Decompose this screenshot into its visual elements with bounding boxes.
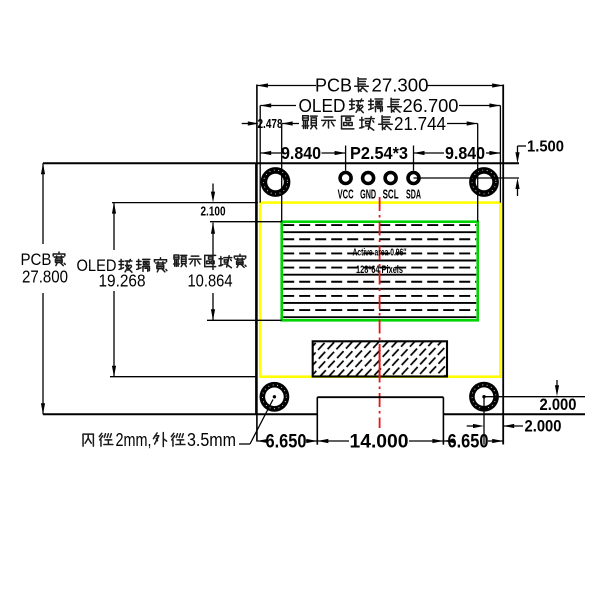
display length left arrow: [282, 121, 293, 125]
svg-text:27.300: 27.300: [372, 76, 429, 96]
display pixel row (solid): [283, 274, 476, 276]
label display length: xian: [302, 116, 317, 129]
2.000 h-dim right-pointing arrow: [473, 424, 484, 428]
svg-text:SCL: SCL: [383, 187, 399, 202]
mounting hole 2: [469, 167, 499, 197]
svg-text:PCB: PCB: [315, 76, 352, 96]
arrow PCB length left: [257, 83, 268, 87]
hole center vertical extension: [483, 397, 485, 445]
9.840 left dim line seg: [260, 152, 281, 154]
dim line PCB length right segment: [427, 85, 503, 87]
2.100/10.864 up arrow: [211, 223, 215, 234]
OLED glass outline (yellow): [260, 203, 500, 377]
svg-text:2.000: 2.000: [525, 418, 562, 436]
label display length: qu: [342, 116, 354, 129]
display width dim line upper: [212, 223, 214, 270]
2.100 down arrow: [211, 192, 215, 203]
6.650 R dim seg2: [488, 440, 503, 442]
leader diagonal to hole: [250, 400, 273, 445]
2.000 h-dim left-pointing arrow: [503, 424, 514, 428]
label display width: shi: [189, 256, 201, 266]
glass bottom extension line left: [110, 376, 257, 378]
14.000 dim seg: [317, 440, 349, 442]
FPC hatched rectangle: [313, 341, 447, 376]
hole center extension right: [484, 396, 585, 398]
label display width: yu: [219, 256, 232, 268]
PCB left edge + extensions: [256, 85, 258, 442]
svg-text:2mm,: 2mm,: [116, 430, 152, 450]
display length right arrow: [467, 121, 478, 125]
display pixel row (dashed): [283, 238, 476, 240]
6.650 R dim seg: [443, 440, 448, 442]
label glass width: li: [137, 259, 150, 271]
label glass width: kuan: [155, 258, 167, 272]
glass width up arrow: [112, 203, 116, 214]
arrow OLED glass length right: [489, 103, 500, 107]
display pixel row (dashed): [283, 224, 476, 226]
label PCB length: chang: [355, 78, 369, 92]
PCB right edge + extensions: [502, 85, 504, 445]
svg-text:OLED: OLED: [299, 95, 346, 116]
PCB bottom edge right + extension: [443, 413, 585, 415]
9.840 right dim seg2: [486, 152, 500, 154]
svg-text:P2.54*3: P2.54*3: [350, 143, 408, 163]
2.100 upper arrow line: [212, 184, 214, 197]
6.650 L dim seg2: [306, 440, 317, 442]
label glass length: bo: [350, 99, 364, 113]
9.840 left right-arrow: [335, 151, 346, 155]
label wai: [153, 432, 166, 446]
label display length: chang: [379, 116, 393, 130]
9.840 right right-arrow: [489, 151, 500, 155]
label display width: xian: [174, 255, 187, 267]
arrow OLED glass length left: [260, 103, 271, 107]
display active area outline (green): [282, 222, 478, 321]
display right extension line: [477, 124, 479, 222]
dim line PCB length left segment: [257, 85, 316, 87]
svg-text:2.478: 2.478: [258, 117, 283, 131]
dim line OLED glass length left segment: [260, 105, 296, 107]
SDA pin extension line up: [413, 146, 415, 171]
svg-text:9.840: 9.840: [281, 143, 321, 163]
1.500 leader tick: [518, 145, 527, 147]
PCB top edge + extension lines: [43, 162, 519, 164]
6.650 L right arrow: [306, 439, 317, 443]
2.000 v-dim down arrow: [555, 385, 559, 396]
svg-text:14.000: 14.000: [350, 431, 409, 453]
display pixel row (dashed): [283, 252, 476, 254]
display bottom extension left: [207, 319, 282, 321]
PCB width up arrow: [41, 163, 45, 174]
glass width dim line lower: [113, 291, 115, 377]
pin GND: [361, 171, 376, 186]
9.840 left arrow: [260, 151, 271, 155]
svg-text:GND: GND: [360, 187, 376, 202]
red centerline over hatch: [379, 347, 381, 378]
display pixel row (solid): [283, 288, 476, 290]
svg-text:2.000: 2.000: [540, 396, 577, 414]
VCC pin extension line up: [345, 146, 347, 171]
PCB bottom edge left + extension: [43, 413, 317, 415]
svg-text:128*64 Pixels: 128*64 Pixels: [356, 264, 403, 276]
14.000 right arrow: [432, 439, 443, 443]
label nei: [83, 434, 93, 446]
dim line display length right segment: [447, 123, 478, 125]
9.840 left dim line seg2: [322, 152, 346, 154]
dim line OLED glass length right segment: [459, 105, 500, 107]
glass width down arrow: [112, 366, 116, 377]
mounting hole 3: [260, 382, 290, 412]
9.840 right left-arrow: [414, 151, 425, 155]
arrow PCB length right: [492, 83, 503, 87]
svg-text:SDA: SDA: [406, 187, 421, 202]
svg-text:6.650: 6.650: [448, 431, 489, 453]
tab top edge: [317, 396, 443, 398]
svg-text:6.650: 6.650: [266, 431, 307, 453]
svg-text:27.800: 27.800: [22, 267, 68, 287]
6.650 L dim seg: [257, 440, 266, 442]
2.478 left arrow tail: [242, 123, 257, 125]
svg-text:3.5mm: 3.5mm: [187, 430, 236, 450]
display pixel row (dashed): [283, 309, 476, 311]
mounting hole 4: [469, 382, 499, 412]
glass width dim line upper: [113, 203, 115, 250]
9.840 right dim seg: [414, 152, 445, 154]
OLED glass left extension: [259, 106, 261, 203]
OLED glass right extension: [499, 106, 501, 203]
label jing: [99, 433, 113, 446]
display pixel row (dashed): [283, 281, 476, 283]
svg-text:10.864: 10.864: [188, 271, 233, 291]
2.000 v-dim upper arrow line: [556, 380, 558, 391]
svg-text:21.744: 21.744: [394, 113, 446, 134]
svg-text:9.840: 9.840: [445, 143, 485, 163]
PCB left edge thickening: [255, 163, 257, 414]
display pixel row (solid): [283, 316, 476, 318]
display width down arrow: [211, 309, 215, 320]
red vertical centerline: [379, 197, 381, 428]
14.000 left arrow: [317, 439, 328, 443]
label display length: shi: [322, 117, 336, 128]
display pixel row (solid): [283, 302, 476, 304]
label display length: yu: [360, 117, 374, 131]
display left extension line: [281, 124, 283, 222]
label display width: kuan: [234, 254, 246, 267]
14.000 dim seg2: [409, 440, 443, 442]
PCB width dim line lower: [42, 293, 44, 414]
display pixel row (dashed): [283, 267, 476, 269]
1.500 down arrow: [515, 152, 519, 163]
1.500 up arrow: [515, 178, 519, 189]
2.000 h-dim right tail: [503, 425, 523, 427]
pin SDA: [406, 171, 421, 186]
svg-text:Active area 0.96″: Active area 0.96″: [353, 248, 407, 259]
display top extension left: [210, 221, 282, 223]
tab right edge + extension: [442, 397, 444, 445]
label PCB width: kuan: [53, 252, 65, 266]
SDA pin row extension to right: [414, 177, 520, 179]
glass top extension line left: [112, 202, 258, 204]
1.500 lower arrow line: [517, 183, 519, 196]
svg-text:VCC: VCC: [338, 187, 354, 202]
6.650 R right arrow: [492, 439, 503, 443]
label display width: qu: [205, 255, 216, 266]
display pixel row (dashed): [283, 295, 476, 297]
display pixel row (solid): [283, 245, 476, 247]
1.500 upper arrow line: [517, 146, 519, 157]
mounting hole 1: [261, 167, 291, 197]
2.000 h-dim left tail: [467, 425, 473, 427]
label glass length: li: [369, 99, 383, 112]
display pixel row (solid): [283, 260, 476, 262]
svg-text:1.500: 1.500: [527, 139, 564, 156]
label glass width: bo: [119, 259, 132, 272]
pin SCL: [383, 171, 398, 186]
PCB width down arrow: [41, 403, 45, 414]
leader horizontal: [239, 443, 250, 445]
tab left edge + extension: [316, 397, 318, 445]
2.478 left arrow (points right): [248, 121, 259, 125]
dim line display length left segment: [282, 123, 299, 125]
6.650 left arrow: [257, 439, 268, 443]
pin VCC: [338, 171, 353, 186]
PCB width dim line upper: [42, 163, 44, 244]
svg-text:19.268: 19.268: [99, 271, 146, 291]
display width dim line lower: [212, 293, 214, 320]
label jing2: [171, 433, 185, 446]
display pixel row (solid): [283, 231, 476, 233]
6.650 R left arrow: [443, 439, 454, 443]
svg-text:2.100: 2.100: [201, 205, 226, 219]
label glass length: chang: [388, 98, 402, 112]
